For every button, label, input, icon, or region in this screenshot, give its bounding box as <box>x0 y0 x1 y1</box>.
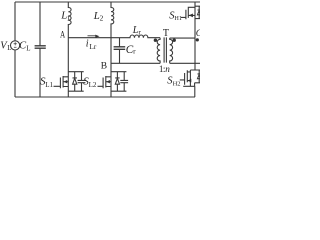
svg-text:n: n <box>165 64 170 74</box>
svg-text:A: A <box>60 30 65 40</box>
svg-text:L1: L1 <box>45 81 53 89</box>
svg-text:L: L <box>7 44 11 52</box>
svg-text:r: r <box>133 46 136 55</box>
svg-text:L2: L2 <box>89 81 97 89</box>
svg-text:B: B <box>101 61 107 71</box>
svg-text:Lr: Lr <box>89 42 96 51</box>
svg-text:C: C <box>196 29 200 39</box>
svg-text:T: T <box>163 28 169 39</box>
svg-text:1: 1 <box>67 13 71 22</box>
svg-text:2: 2 <box>100 14 104 23</box>
svg-text:H2: H2 <box>173 80 181 87</box>
svg-text:i: i <box>86 39 89 50</box>
svg-text:L: L <box>26 44 30 52</box>
svg-text:H1: H1 <box>174 15 182 22</box>
